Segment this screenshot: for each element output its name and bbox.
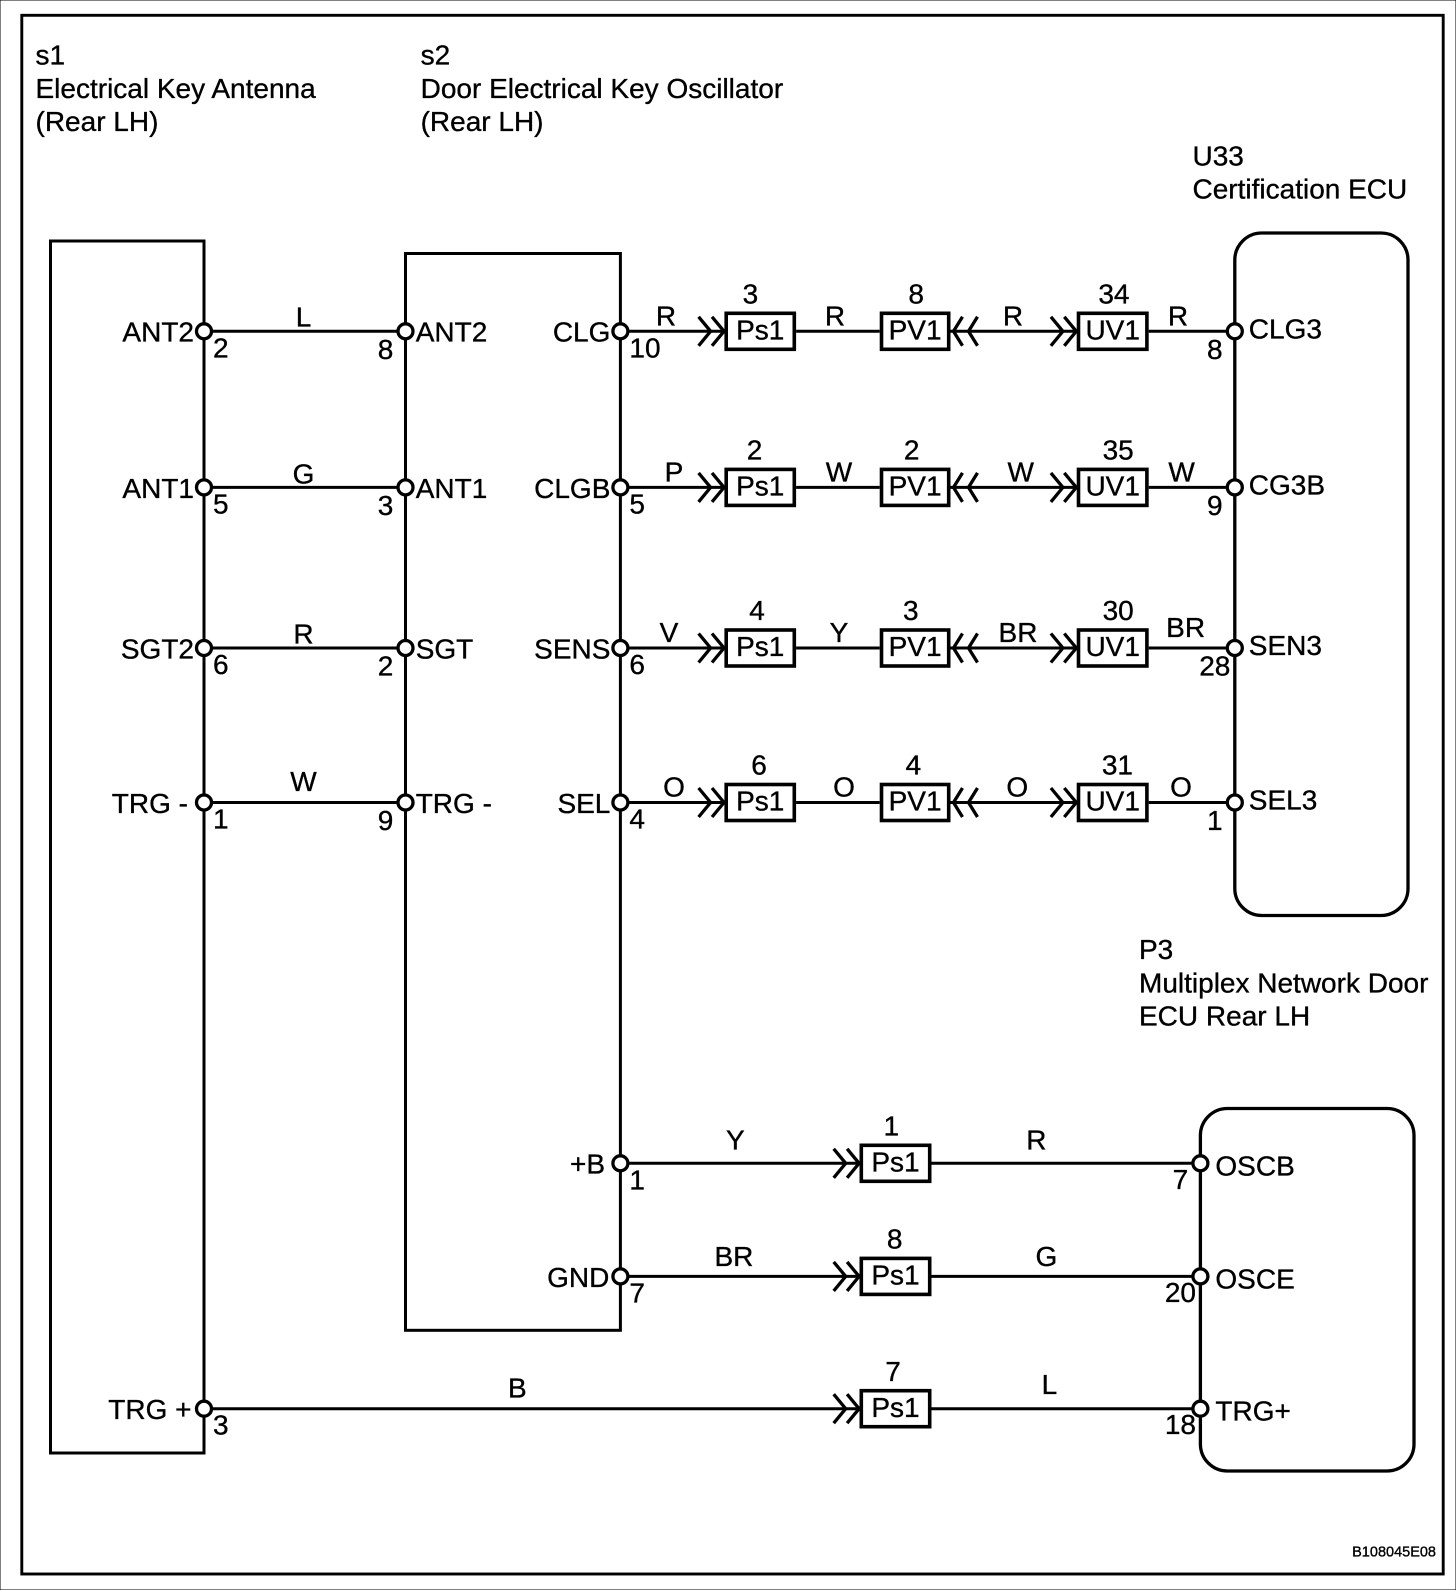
- wire BR: s2 GND pin 7 to connector Ps1: [620, 1241, 859, 1277]
- ECU P3 Multiplex Network Door ECU Rear LH: [1200, 1109, 1414, 1472]
- pin U33 CG3B pin 9: [1207, 469, 1325, 521]
- svg-text:18: 18: [1165, 1409, 1196, 1440]
- svg-text:8: 8: [908, 279, 924, 310]
- svg-text:+B: +B: [570, 1149, 605, 1180]
- connector Ps1 pin 3: [726, 279, 794, 350]
- connector UV1 pin 30: [1079, 595, 1147, 666]
- svg-text:PV1: PV1: [889, 631, 942, 662]
- svg-text:Ps1: Ps1: [736, 786, 784, 817]
- pin s2 ANT2 pin 8: [378, 317, 488, 365]
- connector symbol double chevron right: [1051, 473, 1076, 502]
- pin s1 TRG - pin 1: [112, 788, 229, 835]
- svg-text:B: B: [508, 1372, 527, 1403]
- label s1 header: [36, 40, 317, 138]
- wire Y: s2 +B pin 1 to connector Ps1: [620, 1124, 859, 1163]
- connector UV1 pin 34: [1079, 279, 1147, 350]
- svg-text:W: W: [1168, 456, 1195, 487]
- svg-text:2: 2: [213, 332, 229, 363]
- svg-text:TRG+: TRG+: [1215, 1396, 1290, 1427]
- svg-text:SEL3: SEL3: [1249, 785, 1318, 816]
- svg-text:R: R: [1003, 300, 1023, 331]
- svg-text:OSCE: OSCE: [1215, 1263, 1294, 1294]
- connector UV1 pin 35: [1079, 435, 1147, 506]
- svg-text:GND: GND: [547, 1262, 609, 1293]
- pin U33 SEL3 pin 1: [1207, 785, 1317, 837]
- svg-text:CLGB: CLGB: [534, 473, 610, 504]
- svg-text:UV1: UV1: [1085, 315, 1139, 346]
- connector symbol double chevron right: [699, 634, 724, 663]
- svg-text:(Rear LH): (Rear LH): [421, 106, 544, 137]
- svg-text:TRG +: TRG +: [108, 1394, 191, 1425]
- connector symbol double chevron right: [834, 1149, 859, 1178]
- wire G: s1 ANT1 pin 5 to s2 ANT1 pin 3: [204, 458, 406, 489]
- connector symbol double chevron right: [699, 788, 724, 817]
- wire Y: Ps1 to PV1: [796, 617, 880, 648]
- connector symbol double chevron left: [954, 788, 978, 817]
- svg-text:G: G: [293, 458, 315, 489]
- pin s1 TRG + pin 3: [108, 1394, 228, 1441]
- connector Ps1 pin 8: [861, 1224, 929, 1295]
- svg-text:V: V: [660, 617, 679, 648]
- wire W: s1 TRG - pin 1 to s2 TRG - pin 9: [204, 766, 406, 802]
- svg-text:30: 30: [1103, 595, 1134, 626]
- wire O: Ps1 to PV1: [796, 772, 880, 803]
- connector Ps1 pin 7: [861, 1356, 929, 1427]
- wire W: PV1 to UV1: [951, 456, 1077, 487]
- svg-text:5: 5: [629, 488, 645, 519]
- connector Ps1 pin 1: [861, 1111, 929, 1182]
- component s2 Door Electrical Key Oscillator (Rear LH): [406, 254, 621, 1331]
- connector symbol double chevron right: [699, 317, 724, 346]
- svg-text:CG3B: CG3B: [1249, 469, 1325, 500]
- svg-text:P: P: [665, 456, 684, 487]
- connector PV1 pin 8: [882, 279, 949, 350]
- pin s2 SGT pin 2: [378, 633, 474, 681]
- wire V: s2 SENS pin 6 to connector Ps1: [620, 617, 724, 648]
- svg-text:1: 1: [213, 804, 229, 835]
- pin P3 OSCB pin 7: [1173, 1150, 1295, 1195]
- svg-text:W: W: [290, 766, 317, 797]
- svg-text:UV1: UV1: [1085, 631, 1139, 662]
- connector Ps1 pin 4: [726, 595, 794, 666]
- wire G: Ps1 to P3 OSCE pin 20: [932, 1241, 1201, 1277]
- label U33 header: [1193, 140, 1408, 204]
- connector symbol double chevron right: [699, 473, 724, 502]
- svg-text:PV1: PV1: [889, 786, 942, 817]
- connector symbol double chevron right: [834, 1262, 859, 1291]
- pin P3 TRG+ pin 18: [1165, 1396, 1291, 1441]
- connector symbol double chevron left: [954, 473, 978, 502]
- svg-text:Ps1: Ps1: [736, 631, 784, 662]
- svg-text:8: 8: [887, 1224, 903, 1255]
- wire P: s2 CLGB pin 5 to connector Ps1: [620, 456, 724, 487]
- svg-text:4: 4: [749, 595, 765, 626]
- svg-text:SGT2: SGT2: [121, 633, 194, 664]
- svg-text:W: W: [1007, 456, 1034, 487]
- svg-text:SEN3: SEN3: [1249, 630, 1322, 661]
- connector Ps1 pin 6: [726, 750, 794, 821]
- svg-text:ANT2: ANT2: [416, 317, 488, 348]
- svg-text:Multiplex Network Door: Multiplex Network Door: [1139, 967, 1428, 998]
- svg-text:Ps1: Ps1: [871, 1260, 919, 1291]
- svg-text:7: 7: [885, 1356, 901, 1387]
- svg-text:28: 28: [1199, 651, 1230, 682]
- wire W: Ps1 to PV1: [796, 456, 880, 487]
- connector symbol double chevron right: [1051, 317, 1076, 346]
- svg-text:SEL: SEL: [557, 788, 610, 819]
- svg-text:s1: s1: [36, 40, 66, 71]
- label drawing number B108045E08: [1352, 1545, 1436, 1561]
- svg-text:6: 6: [629, 649, 645, 680]
- svg-text:9: 9: [378, 805, 394, 836]
- svg-text:PV1: PV1: [889, 315, 942, 346]
- svg-text:6: 6: [213, 649, 229, 680]
- connector PV1 pin 4: [882, 750, 949, 821]
- pin s2 SENS pin 6: [534, 633, 645, 680]
- pin s1 SGT2 pin 6: [121, 633, 229, 680]
- svg-text:R: R: [293, 618, 313, 649]
- wire R: UV1 to U33 CLG3 pin 8: [1149, 300, 1235, 331]
- pin s2 GND pin 7: [547, 1262, 645, 1309]
- svg-text:Door Electrical Key Oscillator: Door Electrical Key Oscillator: [421, 73, 784, 104]
- svg-text:4: 4: [629, 804, 645, 835]
- svg-text:35: 35: [1103, 435, 1134, 466]
- svg-text:UV1: UV1: [1085, 471, 1139, 502]
- svg-text:R: R: [825, 300, 845, 331]
- wire R: Ps1 to P3 OSCB pin 7: [932, 1124, 1201, 1163]
- svg-text:W: W: [826, 456, 853, 487]
- svg-text:1: 1: [629, 1164, 645, 1195]
- connector symbol double chevron right: [1051, 788, 1076, 817]
- svg-text:TRG -: TRG -: [112, 788, 188, 819]
- pin s2 CLG pin 10: [553, 317, 661, 364]
- wire L: s1 ANT2 pin 2 to s2 ANT2 pin 8: [204, 301, 406, 332]
- svg-text:BR: BR: [999, 617, 1038, 648]
- svg-text:O: O: [1006, 772, 1028, 803]
- wire O: UV1 to U33 SEL3 pin 1: [1149, 772, 1235, 803]
- svg-text:2: 2: [747, 435, 763, 466]
- svg-text:ANT2: ANT2: [122, 317, 194, 348]
- wire W: UV1 to U33 CG3B pin 9: [1149, 456, 1235, 487]
- svg-text:s2: s2: [421, 40, 451, 71]
- pin s1 ANT2 pin 2: [122, 317, 228, 364]
- svg-text:P3: P3: [1139, 934, 1173, 965]
- svg-text:Ps1: Ps1: [736, 315, 784, 346]
- svg-text:6: 6: [751, 750, 767, 781]
- svg-text:1: 1: [1207, 805, 1223, 836]
- wire O: s2 SEL pin 4 to connector Ps1: [620, 772, 724, 803]
- svg-text:8: 8: [378, 334, 394, 365]
- svg-text:7: 7: [629, 1277, 645, 1308]
- svg-text:2: 2: [378, 651, 394, 682]
- svg-text:34: 34: [1098, 279, 1129, 310]
- svg-text:10: 10: [629, 332, 660, 363]
- connector symbol double chevron right: [1051, 634, 1076, 663]
- svg-text:3: 3: [378, 490, 394, 521]
- svg-text:CLG3: CLG3: [1249, 313, 1322, 344]
- svg-text:OSCB: OSCB: [1215, 1150, 1294, 1181]
- svg-text:BR: BR: [714, 1241, 753, 1272]
- svg-text:O: O: [663, 772, 685, 803]
- label P3 header: [1139, 934, 1428, 1032]
- component s1 Electrical Key Antenna (Rear LH): [51, 241, 205, 1453]
- svg-text:SENS: SENS: [534, 633, 610, 664]
- svg-text:UV1: UV1: [1085, 786, 1139, 817]
- svg-text:Y: Y: [726, 1124, 745, 1155]
- svg-text:Ps1: Ps1: [871, 1392, 919, 1423]
- svg-text:O: O: [833, 772, 855, 803]
- wire BR: PV1 to UV1: [951, 617, 1077, 648]
- svg-text:1: 1: [884, 1111, 900, 1142]
- label s2 header: [421, 40, 784, 138]
- svg-text:3: 3: [213, 1410, 229, 1441]
- svg-text:(Rear LH): (Rear LH): [36, 106, 159, 137]
- svg-text:R: R: [1026, 1124, 1046, 1155]
- svg-text:4: 4: [906, 750, 922, 781]
- pin s2 SEL pin 4: [557, 788, 645, 835]
- svg-text:ANT1: ANT1: [416, 473, 488, 504]
- pin P3 OSCE pin 20: [1165, 1263, 1295, 1308]
- svg-text:3: 3: [743, 279, 759, 310]
- svg-text:7: 7: [1173, 1164, 1189, 1195]
- connector Ps1 pin 2: [726, 435, 794, 506]
- ECU U33 Certification ECU: [1235, 233, 1408, 916]
- svg-text:L: L: [296, 301, 312, 332]
- pin U33 SEN3 pin 28: [1199, 630, 1322, 682]
- pin s2 TRG - pin 9: [378, 788, 492, 836]
- svg-text:ANT1: ANT1: [122, 473, 194, 504]
- connector PV1 pin 2: [882, 435, 949, 506]
- connector symbol double chevron left: [954, 634, 978, 663]
- svg-text:5: 5: [213, 488, 229, 519]
- svg-text:R: R: [656, 300, 676, 331]
- svg-text:Certification ECU: Certification ECU: [1193, 174, 1408, 205]
- svg-text:ECU Rear LH: ECU Rear LH: [1139, 1001, 1310, 1032]
- wire O: PV1 to UV1: [951, 772, 1077, 803]
- pin s1 ANT1 pin 5: [122, 473, 228, 520]
- svg-text:SGT: SGT: [416, 633, 474, 664]
- svg-text:L: L: [1042, 1369, 1058, 1400]
- svg-text:Ps1: Ps1: [871, 1147, 919, 1178]
- svg-text:CLG: CLG: [553, 317, 611, 348]
- svg-text:B108045E08: B108045E08: [1352, 1545, 1436, 1561]
- svg-text:U33: U33: [1193, 140, 1244, 171]
- svg-text:3: 3: [903, 595, 919, 626]
- wire BR: UV1 to U33 SEN3 pin 28: [1149, 612, 1235, 648]
- connector PV1 pin 3: [882, 595, 949, 666]
- svg-text:8: 8: [1207, 334, 1223, 365]
- svg-text:G: G: [1036, 1241, 1058, 1272]
- wire R: PV1 to UV1: [951, 300, 1077, 331]
- wire R: Ps1 to PV1: [796, 300, 880, 331]
- svg-text:Ps1: Ps1: [736, 471, 784, 502]
- svg-text:R: R: [1168, 300, 1188, 331]
- svg-text:9: 9: [1207, 490, 1223, 521]
- connector symbol double chevron right: [834, 1394, 859, 1423]
- svg-text:TRG -: TRG -: [416, 788, 492, 819]
- svg-text:31: 31: [1102, 750, 1133, 781]
- svg-text:2: 2: [904, 435, 920, 466]
- wire R: s2 CLG pin 10 to connector Ps1: [620, 300, 724, 331]
- svg-text:O: O: [1170, 772, 1192, 803]
- svg-text:PV1: PV1: [889, 471, 942, 502]
- svg-text:Electrical Key Antenna: Electrical Key Antenna: [36, 73, 317, 104]
- wire L: Ps1 to P3 TRG+ pin 18: [932, 1369, 1201, 1409]
- connector symbol double chevron left: [954, 317, 978, 346]
- wire R: s1 SGT2 pin 6 to s2 SGT pin 2: [204, 618, 406, 649]
- pin s2 CLGB pin 5: [534, 473, 645, 520]
- wire B: s1 TRG + pin 3 to connector Ps1: [204, 1372, 860, 1408]
- connector UV1 pin 31: [1079, 750, 1147, 821]
- pin U33 CLG3 pin 8: [1207, 313, 1322, 365]
- svg-text:20: 20: [1165, 1277, 1196, 1308]
- pin s2 +B pin 1: [570, 1149, 645, 1196]
- svg-text:BR: BR: [1166, 612, 1205, 643]
- svg-text:Y: Y: [830, 617, 849, 648]
- pin s2 ANT1 pin 3: [378, 473, 488, 521]
